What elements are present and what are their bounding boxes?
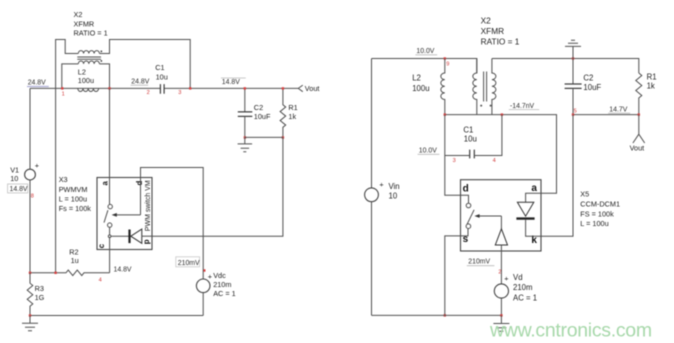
source Vdc xyxy=(196,279,210,293)
wire k riser xyxy=(541,115,573,237)
bias label 14.7V xyxy=(608,107,630,114)
wire main output line left part (node 24.8V) xyxy=(30,87,160,89)
phase dot primary xyxy=(101,51,103,53)
bias label 24.8V at far left xyxy=(27,79,49,86)
svg-text:L2: L2 xyxy=(412,73,421,82)
capacitor C1 (left) xyxy=(160,84,164,94)
node dots R1 xyxy=(282,87,284,89)
wire terminal a riser xyxy=(109,88,111,204)
bias label 210mV right xyxy=(467,259,495,266)
svg-text:X2: X2 xyxy=(74,10,83,19)
wire V1 branch lower xyxy=(29,180,31,273)
wire Vdc bottom xyxy=(202,293,204,316)
svg-text:100u: 100u xyxy=(412,84,429,93)
wire top rail Vin to primary xyxy=(372,59,477,74)
svg-text:100u: 100u xyxy=(78,76,94,85)
svg-text:+: + xyxy=(208,272,212,281)
svg-text:PWM switch VM: PWM switch VM xyxy=(145,180,152,231)
svg-text:14.8V: 14.8V xyxy=(222,79,240,86)
svg-text:a: a xyxy=(100,181,109,186)
node dot right of C1 xyxy=(189,87,191,89)
svg-text:XFMR: XFMR xyxy=(481,26,505,36)
svg-text:210m: 210m xyxy=(213,280,231,289)
resistor R2 xyxy=(30,270,110,276)
svg-text:c: c xyxy=(97,243,106,248)
wire main output line right part xyxy=(164,87,298,89)
svg-text:p: p xyxy=(142,239,151,244)
label X5 xyxy=(580,189,620,228)
ground under C2 xyxy=(238,137,253,151)
source V1 xyxy=(25,169,36,180)
svg-text:C2: C2 xyxy=(254,103,263,112)
svg-text:AC = 1: AC = 1 xyxy=(513,293,537,302)
source Vin xyxy=(371,59,373,188)
capacitor C2 (right) xyxy=(572,59,574,84)
svg-text:10uF: 10uF xyxy=(254,112,271,121)
resistor R1 (left) xyxy=(280,88,286,137)
node dots on R2 line xyxy=(29,272,31,274)
svg-text:Fs = 100k: Fs = 100k xyxy=(59,204,92,213)
svg-text:10: 10 xyxy=(389,191,398,200)
svg-text:R1: R1 xyxy=(288,103,297,112)
diode (X5) xyxy=(526,193,541,202)
svg-text:L = 100u: L = 100u xyxy=(580,219,608,228)
svg-text:+: + xyxy=(504,274,508,283)
svg-text:d: d xyxy=(463,184,469,195)
wire mid rail right (14.7V) xyxy=(573,114,639,116)
svg-text:CCM-DCM1: CCM-DCM1 xyxy=(580,199,620,208)
resistor R3 xyxy=(27,273,33,316)
svg-text:Vd: Vd xyxy=(513,273,523,282)
svg-text:24.8V: 24.8V xyxy=(28,79,46,86)
svg-text:5: 5 xyxy=(574,108,577,114)
control arrow from d xyxy=(116,214,140,216)
node dot L2 bottom xyxy=(444,113,446,115)
switch lever (X5) xyxy=(467,210,474,224)
svg-text:C1: C1 xyxy=(155,63,164,72)
svg-text:+: + xyxy=(379,180,383,189)
output arrow Vout (right) xyxy=(638,115,640,134)
junction circle c-diode xyxy=(108,235,111,238)
svg-text:R2: R2 xyxy=(69,247,78,256)
svg-text:1k: 1k xyxy=(288,112,296,121)
wire C2-R1 bottom link xyxy=(245,136,283,138)
block X3 PWMVM box xyxy=(97,178,152,250)
svg-text:X5: X5 xyxy=(580,189,589,198)
inductor L2 (left, inline bumps below line) xyxy=(78,88,99,91)
svg-text:d: d xyxy=(135,180,144,185)
wire triangle to Vd xyxy=(500,245,502,284)
label X2 (left transformer name) xyxy=(74,10,108,38)
wire V1 branch upper xyxy=(29,88,31,169)
label X2 (right transformer) xyxy=(481,15,520,46)
node dot at L2 right xyxy=(108,87,110,89)
svg-text:X2: X2 xyxy=(481,15,492,25)
svg-text:a: a xyxy=(531,183,537,194)
svg-text:Vout: Vout xyxy=(630,144,645,153)
transformer X2r primary winding xyxy=(473,59,477,115)
switch upper contact xyxy=(108,204,112,208)
bias label 10.0V top xyxy=(415,48,437,55)
svg-text:R3: R3 xyxy=(35,284,44,293)
svg-text:210m: 210m xyxy=(513,283,533,292)
switch lever xyxy=(104,210,108,222)
wire secondary right lead down to node xyxy=(99,64,109,89)
svg-text:24.8V: 24.8V xyxy=(131,78,149,85)
svg-text:14.7V: 14.7V xyxy=(609,107,627,114)
wire bottom rail left xyxy=(30,315,203,317)
wire bottom rail right xyxy=(372,314,502,316)
svg-text:FS = 100k: FS = 100k xyxy=(580,209,614,218)
block X5 box xyxy=(461,180,542,251)
svg-text:+: + xyxy=(35,161,39,170)
svg-text:R1: R1 xyxy=(647,73,657,82)
node dot at ground stem xyxy=(572,57,574,59)
ground (inverted, top right) xyxy=(565,40,581,58)
bias label 14.8V top xyxy=(221,78,246,86)
wire switch bottom to c xyxy=(109,227,111,272)
wire primary bus with step (to transformer X2 primary) xyxy=(56,40,79,273)
capacitor C2 branch xyxy=(244,88,246,111)
source Vd xyxy=(494,284,508,298)
bias label -14.7nV xyxy=(509,103,539,110)
svg-text:14.8V: 14.8V xyxy=(10,186,28,193)
svg-text:L = 100u: L = 100u xyxy=(59,195,87,204)
svg-text:1u: 1u xyxy=(71,256,79,265)
bias label 14.8V boxed under V1 xyxy=(8,184,28,193)
svg-text:1k: 1k xyxy=(647,82,655,91)
svg-text:10uF: 10uF xyxy=(583,83,601,92)
transformer X2r secondary winding xyxy=(492,59,496,115)
svg-text:8: 8 xyxy=(31,194,34,200)
svg-text:4: 4 xyxy=(493,158,496,164)
svg-text:V1: V1 xyxy=(10,165,19,174)
transformer X2r core xyxy=(484,72,487,102)
svg-text:X3: X3 xyxy=(59,175,68,184)
transformer X2 primary winding xyxy=(78,51,99,54)
wire mid rail to a xyxy=(445,115,557,194)
svg-text:1: 1 xyxy=(62,92,65,98)
svg-text:RATIO = 1: RATIO = 1 xyxy=(74,29,108,38)
svg-text:k: k xyxy=(531,235,537,246)
node 9 dot xyxy=(444,57,446,59)
svg-text:4: 4 xyxy=(99,277,102,283)
svg-text:9: 9 xyxy=(446,62,449,68)
svg-text:Vin: Vin xyxy=(389,182,400,191)
svg-text:AC = 1: AC = 1 xyxy=(213,289,236,298)
bias label 24.8V mid xyxy=(131,78,150,85)
svg-text:XFMR: XFMR xyxy=(74,20,95,29)
svg-text:10: 10 xyxy=(10,174,18,183)
control arrow (X5) xyxy=(479,215,501,217)
phase dots X2r xyxy=(480,105,482,107)
svg-text:210mV: 210mV xyxy=(468,259,490,266)
wire primary right lead up and over to output xyxy=(99,40,190,89)
switch lower contact xyxy=(108,223,112,227)
bias label 210mV boxed xyxy=(176,257,200,267)
svg-text:Vdc: Vdc xyxy=(213,271,226,280)
svg-text:2: 2 xyxy=(147,90,150,96)
svg-text:210mV: 210mV xyxy=(178,260,200,267)
node 1 red xyxy=(61,87,63,89)
wire s exit xyxy=(461,229,469,236)
svg-text:3: 3 xyxy=(178,90,181,96)
wire secondary left lead down to node 1 xyxy=(62,64,79,89)
controlled source triangle (X5) xyxy=(500,216,502,229)
svg-text:www.cntronics.com: www.cntronics.com xyxy=(489,320,652,342)
capacitor C1 (right) xyxy=(445,155,470,157)
ground bottom right xyxy=(493,315,509,331)
resistor R1 (right) xyxy=(636,73,642,115)
switch (X5) xyxy=(461,195,469,203)
output arrow Vout (left) xyxy=(298,85,303,92)
svg-text:Vout: Vout xyxy=(305,84,320,93)
diode (X3) xyxy=(111,235,129,237)
inductor L2 (right) xyxy=(441,59,445,115)
transformer X2 secondary winding xyxy=(78,61,99,64)
svg-text:PWMVM: PWMVM xyxy=(59,185,88,194)
svg-text:10u: 10u xyxy=(464,134,477,143)
phase dot secondary xyxy=(101,60,103,62)
label X3 xyxy=(59,175,92,213)
svg-text:RATIO = 1: RATIO = 1 xyxy=(481,36,520,46)
svg-text:-14.7nV: -14.7nV xyxy=(510,103,535,110)
ground bottom left xyxy=(22,316,38,331)
svg-text:C2: C2 xyxy=(583,73,593,82)
bias label 10.0V mid xyxy=(418,147,440,154)
transformer core xyxy=(77,57,101,59)
wire R1 bottom down to X3 p xyxy=(152,137,283,236)
svg-text:10u: 10u xyxy=(156,73,168,82)
node dots C2 xyxy=(244,87,246,89)
wire d riser (C1 left) xyxy=(445,115,461,196)
svg-text:1G: 1G xyxy=(35,293,45,302)
svg-text:2: 2 xyxy=(498,270,501,276)
wire d riser to Vdc xyxy=(141,168,204,280)
node dot C1 right riser xyxy=(501,113,503,115)
svg-text:10.0V: 10.0V xyxy=(419,147,437,154)
node red dot at Vdc top xyxy=(204,269,206,271)
svg-text:14.8V: 14.8V xyxy=(114,267,132,274)
wire ground rail (secondary top to R1) xyxy=(492,59,639,74)
svg-text:3: 3 xyxy=(453,158,456,164)
svg-text:10.0V: 10.0V xyxy=(416,48,434,55)
